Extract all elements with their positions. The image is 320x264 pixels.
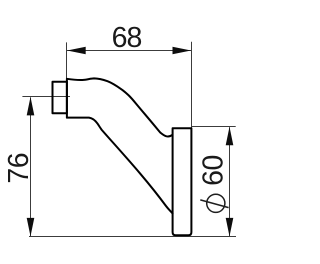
svg-text:76: 76 [3,153,35,184]
svg-text:68: 68 [112,22,142,54]
svg-text:60: 60 [198,155,230,186]
